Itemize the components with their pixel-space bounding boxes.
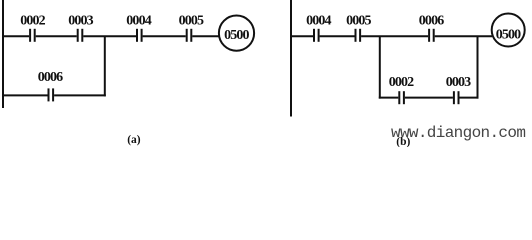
wire 0004 to 0005 (a) — [143, 35, 186, 37]
coil circle 0500 (a) — [219, 15, 254, 50]
contact 0006 (a) — [49, 88, 54, 101]
coil circle 0500 (b) — [492, 14, 525, 47]
svg-text:0006: 0006 — [38, 70, 63, 85]
wire 0002 to 0003 (a) — [36, 35, 77, 37]
contact 0004 (b) — [314, 29, 319, 42]
svg-text:0004: 0004 — [126, 13, 151, 28]
contact 0005 (b) — [356, 29, 361, 42]
svg-text:0006: 0006 — [419, 13, 444, 28]
wire 0002 to 0003 (b) — [405, 97, 453, 99]
contact 0004 (a) — [137, 29, 142, 42]
contact 0006 (b) — [429, 29, 434, 42]
svg-text:0500: 0500 — [224, 28, 249, 43]
contact 0003 (a) — [78, 29, 83, 42]
contact 0005 (a) — [187, 29, 192, 42]
svg-text:0003: 0003 — [446, 75, 471, 90]
left power rail (b) — [290, 0, 292, 117]
wire rail to contact 0002 (a) — [2, 35, 29, 37]
svg-text:0003: 0003 — [68, 13, 93, 28]
wire 0003 to 0004 through branch junction (a) — [83, 35, 136, 37]
wire rail to contact 0006 (a) — [2, 94, 48, 96]
left power rail (a) — [2, 0, 4, 108]
svg-text:0005: 0005 — [346, 13, 371, 28]
svg-text:0002: 0002 — [20, 13, 45, 28]
parallel block right vertical wire (b) — [477, 36, 479, 98]
wire 0004 to 0005 (b) — [320, 35, 355, 37]
svg-text:(a): (a) — [127, 134, 141, 146]
contact 0003 (b) — [454, 91, 459, 104]
parallel block left vertical wire (b) — [379, 36, 381, 98]
wire rail to contact 0004 (b) — [290, 35, 313, 37]
branch vertical junction wire (a) — [104, 36, 106, 96]
wire block left to contact 0002 (b) — [379, 97, 399, 99]
contact 0002 (b) — [399, 91, 404, 104]
svg-text:0002: 0002 — [389, 75, 414, 90]
svg-text:0004: 0004 — [306, 13, 331, 28]
wire 0006 to coil through block right node (b) — [435, 35, 492, 37]
svg-text:0500: 0500 — [496, 28, 521, 43]
svg-text:0005: 0005 — [179, 13, 204, 28]
wire 0003 to block right (b) — [460, 97, 479, 99]
contact 0002 (a) — [30, 29, 35, 42]
wire 0006 to branch vertical (a) — [54, 94, 106, 96]
wire 0005 to contact 0006 through block left node (b) — [361, 35, 428, 37]
wire 0005 to coil (a) — [192, 35, 219, 37]
svg-text:www.diangon.com: www.diangon.com — [391, 124, 525, 142]
